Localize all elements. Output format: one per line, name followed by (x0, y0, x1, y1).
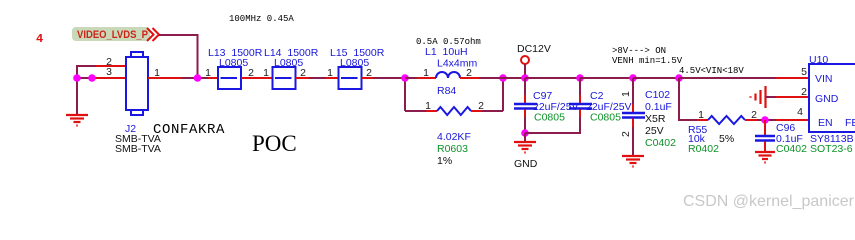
svg-text:L0805: L0805 (219, 57, 248, 69)
svg-text:L0805: L0805 (274, 57, 303, 69)
node C102 (629, 74, 637, 82)
wire J2 pin3 (88, 77, 126, 79)
wire loop bottom right (471, 110, 482, 112)
ground riser wire (76, 78, 78, 114)
svg-text:0.1uF: 0.1uF (645, 101, 672, 113)
svg-text:C0402: C0402 (776, 143, 807, 155)
svg-text:DC12V: DC12V (517, 43, 551, 55)
ground symbol (rotated) at U10 GND (751, 86, 766, 108)
svg-text:4: 4 (36, 32, 43, 46)
svg-text:4.02KF: 4.02KF (437, 131, 471, 143)
wire to L1.1 (405, 77, 417, 79)
resistor R84 (437, 107, 471, 115)
power symbol DC12V (521, 56, 529, 64)
svg-text:1%: 1% (437, 155, 452, 167)
wire L1.2 to loop (460, 77, 479, 79)
ground symbol under C102 (622, 156, 644, 167)
svg-text:1: 1 (263, 67, 269, 79)
node bottom rail (521, 129, 529, 137)
capacitor C102 (622, 78, 645, 155)
node DC12V (521, 74, 529, 82)
capacitor C97 (514, 78, 537, 133)
node C2 (576, 74, 584, 82)
wire J2 pin2 to ground riser (95, 65, 126, 67)
svg-text:FB: FB (845, 117, 855, 129)
node C96 (761, 116, 769, 124)
node junction under label drop (194, 74, 202, 82)
wire ground to U10 GND (766, 96, 776, 98)
ground symbol under C97 (514, 133, 538, 170)
net label VIDEO_LVDS_P (72, 27, 150, 41)
off-page chevron (147, 28, 159, 41)
wire C102 node to EN branch node (633, 77, 679, 79)
svg-text:1: 1 (620, 91, 632, 97)
connector J2 (126, 52, 148, 115)
svg-text:100MHz 0.45A: 100MHz 0.45A (229, 14, 294, 24)
inductor L1 (436, 72, 460, 78)
svg-text:X5R: X5R (645, 113, 666, 125)
svg-text:1: 1 (327, 67, 333, 79)
parallel loop left leg (404, 78, 406, 111)
wire J2.1 to L13.1 (148, 77, 181, 79)
svg-text:5%: 5% (719, 133, 734, 145)
svg-text:SOT23-6: SOT23-6 (810, 143, 853, 155)
regulator U10 (809, 64, 855, 132)
ground symbol under C96 (755, 152, 775, 163)
wire R55.2 to EN (745, 119, 757, 121)
svg-text:R0603: R0603 (437, 143, 468, 155)
svg-text:U10: U10 (809, 54, 828, 66)
ferrite bead L15 (339, 67, 362, 89)
wire C2 node to C102 node (580, 77, 633, 79)
svg-text:2: 2 (620, 131, 632, 137)
node junction at riser (73, 74, 81, 82)
svg-text:25V: 25V (645, 125, 664, 137)
parallel loop right leg (502, 78, 504, 111)
wire L15.2 to loop (362, 77, 374, 79)
svg-text:EN: EN (818, 117, 833, 129)
svg-text:1: 1 (698, 109, 704, 121)
svg-text:R0402: R0402 (688, 143, 719, 155)
wire L14.2 to L15.1 (296, 77, 310, 79)
svg-text:VIN: VIN (815, 73, 833, 85)
svg-text:L0805: L0805 (340, 57, 369, 69)
svg-text:4.5V<VIN<18V: 4.5V<VIN<18V (679, 66, 744, 76)
capacitor C2 (569, 78, 592, 117)
wire loop bottom left (405, 110, 426, 112)
node loop left (401, 74, 409, 82)
svg-text:VENH min=1.5V: VENH min=1.5V (612, 56, 683, 66)
svg-text:1: 1 (423, 67, 429, 79)
wire loop to DC12V node (503, 77, 525, 79)
svg-text:C0805: C0805 (534, 112, 565, 124)
wire L13.2 to L14.1 (241, 77, 273, 79)
svg-text:R84: R84 (437, 85, 456, 97)
svg-text:L1 10uH: L1 10uH (425, 46, 468, 58)
svg-text:GND: GND (815, 93, 839, 105)
wire node to C2 (525, 77, 580, 79)
node EN branch (675, 74, 683, 82)
svg-text:1: 1 (425, 100, 431, 112)
svg-text:>8V---> ON: >8V---> ON (612, 46, 666, 56)
node junction on pin3 wire (88, 74, 96, 82)
wire from label to node (159, 35, 198, 78)
svg-text:C0402: C0402 (645, 137, 676, 149)
svg-text:1: 1 (205, 67, 211, 79)
ground symbol (J2) (66, 115, 88, 126)
capacitor C96 (755, 120, 775, 151)
wire node to U10 VIN (679, 77, 776, 79)
svg-text:3: 3 (106, 66, 112, 78)
svg-text:2: 2 (478, 100, 484, 112)
svg-text:VIDEO_LVDS_P: VIDEO_LVDS_P (77, 29, 148, 41)
svg-text:2: 2 (801, 86, 807, 98)
svg-text:GND: GND (514, 158, 538, 170)
svg-text:POC: POC (252, 131, 297, 156)
svg-text:L4x4mm: L4x4mm (437, 58, 478, 70)
svg-text:SMB-TVA: SMB-TVA (115, 143, 161, 155)
bottom rail wire to C2 (525, 117, 580, 133)
EN branch riser (679, 78, 697, 120)
node loop right (499, 74, 507, 82)
svg-text:5: 5 (801, 66, 807, 78)
svg-text:C102: C102 (645, 89, 670, 101)
svg-text:C0805: C0805 (590, 112, 621, 124)
resistor R55 (708, 116, 745, 124)
svg-text:CONFAKRA: CONFAKRA (153, 122, 225, 138)
svg-text:2: 2 (751, 109, 757, 121)
ferrite bead L14 (273, 67, 296, 89)
svg-text:CSDN @kernel_panicer: CSDN @kernel_panicer (683, 193, 855, 210)
svg-text:4: 4 (797, 106, 803, 118)
ferrite bead L13 (218, 67, 241, 89)
